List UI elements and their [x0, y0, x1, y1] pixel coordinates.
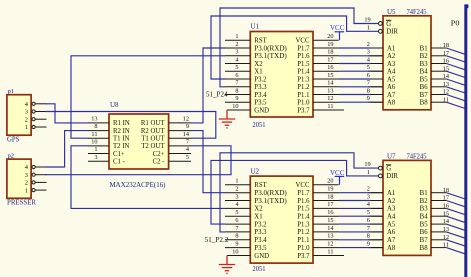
- svg-text:P1.0: P1.0: [297, 100, 310, 107]
- svg-text:7: 7: [235, 80, 238, 87]
- svg-text:9: 9: [367, 240, 370, 247]
- svg-text:P1.1: P1.1: [297, 92, 309, 99]
- svg-text:PRESSER: PRESSER: [7, 199, 36, 207]
- wire net G2: U2.P3.3 to U7.G: [220, 153, 378, 232]
- svg-text:GND: GND: [254, 107, 269, 114]
- svg-text:P1.4: P1.4: [297, 69, 310, 76]
- svg-text:1: 1: [94, 146, 97, 153]
- svg-text:2051: 2051: [253, 121, 266, 129]
- wire bus U1.P1 to U5.A (8 lines): [339, 48, 371, 102]
- U5 pin numbers 19 and 1: [364, 17, 370, 32]
- svg-text:6: 6: [235, 72, 238, 79]
- svg-text:13: 13: [327, 87, 333, 94]
- svg-text:14: 14: [443, 73, 450, 80]
- svg-text:1: 1: [25, 187, 28, 194]
- svg-text:18: 18: [327, 49, 333, 56]
- svg-text:P3.3: P3.3: [254, 84, 267, 91]
- svg-text:1: 1: [367, 169, 370, 176]
- svg-text:B8: B8: [420, 100, 429, 107]
- svg-text:C1+: C1+: [113, 151, 125, 158]
- svg-text:10: 10: [232, 103, 238, 110]
- wire bus U2.P1 to U7.A (8 lines): [339, 193, 371, 248]
- U2 left pin numbers 1-10: [232, 178, 239, 256]
- svg-text:DIR: DIR: [386, 173, 398, 180]
- wire net GPS-RX: U8.T1OUT to P1 pin3: [45, 112, 216, 139]
- svg-text:B5: B5: [420, 76, 429, 83]
- svg-text:2: 2: [25, 116, 28, 123]
- svg-text:A1: A1: [387, 45, 395, 52]
- svg-text:5: 5: [235, 209, 238, 216]
- svg-text:A3: A3: [387, 206, 396, 213]
- svg-text:6: 6: [367, 72, 370, 79]
- svg-text:1: 1: [367, 25, 370, 32]
- svg-text:P3.1(TXD): P3.1(TXD): [254, 198, 286, 205]
- svg-text:X1: X1: [254, 214, 262, 221]
- svg-text:A5: A5: [387, 76, 396, 83]
- svg-text:20: 20: [327, 178, 333, 185]
- svg-text:9: 9: [235, 240, 238, 247]
- svg-text:A8: A8: [387, 245, 396, 252]
- op-amp U8 MAX232 body: [109, 114, 169, 169]
- svg-text:R1 IN: R1 IN: [113, 120, 130, 127]
- svg-text:B4: B4: [420, 69, 429, 76]
- svg-text:U5: U5: [387, 8, 396, 16]
- svg-text:8: 8: [367, 233, 370, 240]
- svg-text:B5: B5: [420, 221, 429, 228]
- svg-text:3: 3: [25, 172, 28, 179]
- svg-text:P3.4: P3.4: [254, 237, 267, 244]
- svg-text:8: 8: [94, 123, 97, 130]
- U7 A-side pin numbers 2-9: [367, 186, 371, 248]
- svg-text:T1 OUT: T1 OUT: [141, 136, 165, 143]
- wire net PRESSER-RX: U8.T2OUT to P2 pin3: [45, 146, 231, 175]
- svg-text:P1.3: P1.3: [297, 221, 310, 228]
- svg-text:14: 14: [327, 225, 334, 232]
- svg-text:C2+: C2+: [153, 151, 165, 158]
- svg-text:R2 OUT: R2 OUT: [141, 128, 165, 135]
- svg-text:P3.2: P3.2: [254, 221, 267, 228]
- svg-text:17: 17: [327, 56, 333, 63]
- svg-text:11: 11: [91, 131, 97, 138]
- U2 right pin stubs 20-11: [313, 185, 383, 256]
- svg-text:9: 9: [186, 123, 189, 130]
- svg-text:A4: A4: [387, 214, 396, 221]
- svg-text:G: G: [386, 21, 391, 28]
- svg-text:A2: A2: [387, 53, 396, 60]
- svg-text:T1 IN: T1 IN: [113, 136, 130, 143]
- svg-text:8: 8: [235, 233, 238, 240]
- U5 B-side pin numbers 18-11: [443, 42, 450, 103]
- svg-text:R1 OUT: R1 OUT: [141, 120, 165, 127]
- svg-text:A3: A3: [387, 61, 396, 68]
- U7 B-side pin numbers 18-11: [443, 187, 450, 249]
- svg-text:P0: P0: [451, 19, 460, 28]
- U5 B pin names: [420, 45, 429, 106]
- svg-text:19: 19: [327, 41, 333, 48]
- svg-text:P3.7: P3.7: [297, 253, 310, 260]
- svg-text:3: 3: [25, 109, 28, 116]
- svg-text:2: 2: [235, 186, 238, 193]
- svg-text:P1.5: P1.5: [297, 61, 310, 68]
- connector P2 pin numbers: [25, 164, 29, 194]
- U7 B-to-bus diagonal wires: [446, 193, 465, 254]
- U2 right pin names: [296, 182, 311, 260]
- svg-text:B3: B3: [420, 61, 429, 68]
- svg-text:X2: X2: [254, 206, 263, 213]
- svg-text:13: 13: [327, 233, 333, 240]
- svg-text:1: 1: [235, 178, 238, 185]
- svg-text:3: 3: [367, 49, 370, 56]
- svg-text:P1.5: P1.5: [297, 206, 310, 213]
- svg-text:P3.3: P3.3: [254, 229, 267, 236]
- svg-text:DIR: DIR: [386, 29, 398, 36]
- U1 left pin numbers 1-10: [232, 33, 239, 110]
- svg-text:MAX232ACPE(16): MAX232ACPE(16): [110, 181, 167, 189]
- wire net RXD2: U8.R2OUT to U2.P3.0: [191, 131, 225, 193]
- svg-text:U2: U2: [251, 167, 260, 175]
- U8 left pin names: [113, 120, 130, 165]
- svg-text:19: 19: [364, 161, 370, 168]
- svg-text:A7: A7: [387, 92, 396, 99]
- svg-text:P3.7: P3.7: [297, 107, 310, 114]
- svg-text:p2: p2: [8, 153, 15, 160]
- U5 G-bar pin name: [386, 20, 391, 28]
- ground symbol at U1 GND pin: [219, 110, 235, 128]
- svg-text:VCC: VCC: [296, 38, 310, 45]
- U1 left pin names: [254, 38, 286, 115]
- svg-text:C1 -: C1 -: [113, 159, 126, 166]
- svg-text:P1.7: P1.7: [297, 45, 310, 52]
- svg-text:GND: GND: [254, 253, 269, 260]
- svg-text:P1.2: P1.2: [297, 84, 310, 91]
- U7 A-side pin stubs: [368, 193, 383, 248]
- U1 right pin names: [296, 38, 311, 115]
- U8 right pin numbers: [183, 116, 190, 161]
- svg-text:2: 2: [367, 186, 370, 193]
- svg-text:RST: RST: [254, 38, 267, 45]
- wire net GPS-TX: P1 pin4 to U8.R1IN: [45, 104, 88, 123]
- svg-text:X2: X2: [254, 61, 263, 68]
- svg-text:9: 9: [367, 95, 370, 102]
- U5 A-side pin stubs: [368, 48, 383, 102]
- svg-text:A6: A6: [387, 84, 396, 91]
- U8 right pin stubs (12,9,14,7,4,5): [169, 123, 191, 161]
- U7 B pin names: [420, 190, 429, 252]
- svg-text:C2 -: C2 -: [153, 159, 166, 166]
- svg-text:T2 IN: T2 IN: [113, 143, 130, 150]
- svg-text:U1: U1: [251, 23, 260, 31]
- svg-text:B1: B1: [420, 190, 428, 197]
- svg-text:3: 3: [367, 193, 370, 200]
- wire net DIR2: U2.P3.2 to U7.DIR: [211, 160, 378, 224]
- svg-text:P3.2: P3.2: [254, 76, 267, 83]
- U1 right pin stubs 20-11: [313, 40, 383, 110]
- svg-text:A2: A2: [387, 198, 396, 205]
- svg-text:A8: A8: [387, 100, 396, 107]
- svg-text:2: 2: [235, 41, 238, 48]
- bus P0 vertical line: [464, 4, 467, 277]
- svg-text:51_P2.2: 51_P2.2: [205, 236, 230, 244]
- svg-text:14: 14: [183, 131, 190, 138]
- svg-text:8: 8: [367, 87, 370, 94]
- svg-text:P1.0: P1.0: [297, 245, 310, 252]
- U8 right pin names: [141, 120, 165, 165]
- svg-text:3: 3: [94, 154, 97, 161]
- U7 G-bar pin name: [386, 165, 391, 173]
- svg-text:74F245: 74F245: [407, 8, 427, 16]
- U7 G and DIR pin circles: [379, 166, 383, 178]
- svg-text:A4: A4: [387, 69, 396, 76]
- svg-text:P3.0(RXD): P3.0(RXD): [254, 45, 286, 52]
- U2 left pin names: [254, 182, 286, 260]
- svg-text:3: 3: [235, 49, 238, 56]
- svg-text:A1: A1: [387, 190, 395, 197]
- svg-text:1: 1: [25, 124, 28, 131]
- svg-text:B4: B4: [420, 214, 429, 221]
- svg-text:VCC: VCC: [330, 24, 345, 32]
- svg-text:A6: A6: [387, 229, 396, 236]
- svg-text:7: 7: [367, 80, 370, 87]
- svg-text:7: 7: [186, 139, 189, 146]
- svg-text:GPS: GPS: [7, 136, 20, 144]
- U8 left pin numbers: [91, 116, 97, 161]
- U7 A pin names: [387, 190, 396, 252]
- svg-text:51_P24: 51_P24: [206, 90, 228, 98]
- svg-text:20: 20: [327, 33, 333, 40]
- svg-text:P3.1(TXD): P3.1(TXD): [254, 53, 286, 60]
- svg-text:5: 5: [367, 64, 370, 71]
- svg-text:14: 14: [443, 218, 450, 225]
- microcontroller U1 2051 body: [250, 32, 313, 118]
- svg-text:6: 6: [367, 217, 370, 224]
- U5 B-side pin stubs: [431, 48, 446, 102]
- svg-text:A5: A5: [387, 221, 396, 228]
- svg-text:13: 13: [443, 81, 449, 88]
- svg-text:A7: A7: [387, 237, 396, 244]
- svg-text:11: 11: [327, 248, 333, 255]
- U2 right pin numbers 20-11: [327, 178, 334, 256]
- svg-text:T2 OUT: T2 OUT: [141, 143, 165, 150]
- svg-text:16: 16: [327, 64, 333, 71]
- U5 G and DIR pin circles: [379, 22, 383, 34]
- bus P0 top cap: [466, 4, 468, 8]
- svg-text:P1.7: P1.7: [297, 190, 310, 197]
- svg-text:B6: B6: [420, 229, 429, 236]
- svg-text:12: 12: [183, 116, 189, 123]
- svg-text:6: 6: [235, 217, 238, 224]
- svg-text:B3: B3: [420, 206, 429, 213]
- buffer U5 74F245 body: [383, 16, 431, 110]
- svg-text:13: 13: [91, 116, 97, 123]
- svg-text:VCC: VCC: [330, 169, 345, 177]
- U1 left pin stubs 1-10: [225, 40, 250, 110]
- U7 pin numbers 19 and 1: [364, 161, 370, 176]
- svg-text:12: 12: [327, 240, 333, 247]
- svg-text:11: 11: [327, 103, 333, 110]
- svg-text:14: 14: [327, 80, 334, 87]
- wire net TXD2: U2 pin4 to U8.T2IN: [71, 146, 225, 209]
- connector P2 body: [7, 159, 31, 198]
- svg-text:B8: B8: [420, 245, 429, 252]
- svg-text:P3.5: P3.5: [254, 245, 267, 252]
- svg-text:B2: B2: [420, 53, 429, 60]
- svg-text:17: 17: [327, 201, 333, 208]
- ground symbol at U2 GND pin: [219, 256, 235, 274]
- svg-text:B1: B1: [420, 45, 428, 52]
- svg-text:2051: 2051: [253, 265, 266, 273]
- svg-text:P3.5: P3.5: [254, 100, 267, 107]
- svg-text:RST: RST: [254, 182, 267, 189]
- svg-text:1: 1: [235, 33, 238, 40]
- U2 left pin stubs 1-10: [225, 185, 250, 256]
- U5 B-to-bus diagonal wires: [446, 48, 465, 109]
- svg-text:5: 5: [367, 209, 370, 216]
- svg-text:9: 9: [235, 95, 238, 102]
- wire net PRESSER-TX: P2 pin4 to U8.R2IN: [45, 131, 88, 167]
- svg-text:16: 16: [327, 209, 333, 216]
- microcontroller U2 2051 body: [250, 176, 313, 263]
- svg-text:2: 2: [367, 41, 370, 48]
- svg-text:P1.6: P1.6: [297, 53, 310, 60]
- svg-text:3: 3: [235, 193, 238, 200]
- svg-text:P3.0(RXD): P3.0(RXD): [254, 190, 286, 197]
- svg-text:B6: B6: [420, 84, 429, 91]
- wire net DIR1: U1.P3.2 to U5.DIR: [211, 16, 378, 79]
- connector P1 body: [7, 95, 31, 136]
- svg-text:P1.1: P1.1: [297, 237, 309, 244]
- svg-text:15: 15: [327, 72, 333, 79]
- buffer U7 74F245 body: [383, 160, 431, 255]
- U5 A pin names: [387, 45, 396, 106]
- svg-text:P3.4: P3.4: [254, 92, 267, 99]
- wire net G1: U1.P3.3 to U5.G: [220, 8, 378, 87]
- svg-text:12: 12: [327, 95, 333, 102]
- svg-text:U8: U8: [110, 101, 119, 109]
- U8 left pin stubs (13,8,11,10,1,3): [88, 123, 109, 161]
- connector P1 pins 4-1 (circles and stubs): [32, 102, 47, 128]
- svg-text:10: 10: [232, 248, 238, 255]
- svg-text:p1: p1: [8, 88, 15, 95]
- svg-text:U7: U7: [387, 152, 396, 160]
- U1 right pin numbers 20-11: [327, 33, 334, 110]
- U7 B-side pin stubs: [431, 193, 446, 248]
- svg-text:P1.6: P1.6: [297, 198, 310, 205]
- svg-text:B2: B2: [420, 198, 429, 205]
- svg-text:18: 18: [327, 193, 333, 200]
- svg-text:5: 5: [186, 154, 189, 161]
- svg-text:7: 7: [367, 225, 370, 232]
- power symbol VCC at U2 pin 20: [330, 169, 345, 185]
- svg-text:B7: B7: [420, 92, 429, 99]
- svg-text:2: 2: [25, 180, 28, 187]
- wire net RXD1: U8.R1OUT to U1.P3.0: [191, 48, 225, 123]
- svg-text:P1.2: P1.2: [297, 229, 310, 236]
- svg-text:R2 IN: R2 IN: [113, 128, 130, 135]
- svg-text:10: 10: [91, 139, 97, 146]
- svg-text:B7: B7: [420, 237, 429, 244]
- svg-text:P1.3: P1.3: [297, 76, 310, 83]
- wire net TXD1: U1.P3.1 to U8.T1IN: [71, 56, 225, 138]
- U5 A-side pin numbers 2-9: [367, 41, 371, 102]
- svg-text:15: 15: [327, 217, 333, 224]
- svg-text:74F245: 74F245: [407, 152, 427, 160]
- svg-text:G: G: [386, 165, 391, 172]
- svg-text:X1: X1: [254, 69, 262, 76]
- svg-text:P1.4: P1.4: [297, 214, 310, 221]
- svg-text:19: 19: [327, 186, 333, 193]
- svg-text:19: 19: [364, 17, 370, 24]
- svg-text:8: 8: [235, 87, 238, 94]
- svg-text:5: 5: [235, 64, 238, 71]
- connector P1 pin numbers: [25, 101, 29, 131]
- connector P2 pins 4-1 (circles and stubs): [32, 165, 47, 191]
- svg-text:7: 7: [235, 225, 238, 232]
- svg-text:VCC: VCC: [296, 182, 310, 189]
- power symbol VCC at U1 pin 20: [330, 24, 345, 40]
